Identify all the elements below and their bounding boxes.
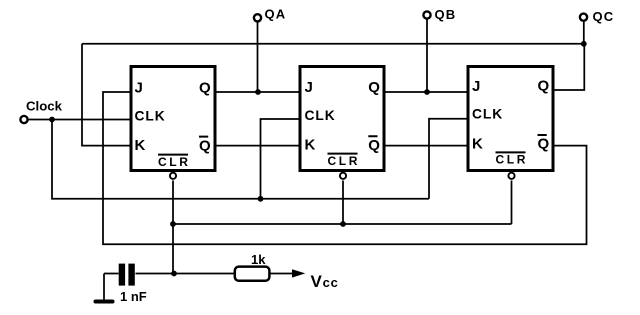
svg-text:QC: QC: [593, 9, 615, 24]
svg-text:QB: QB: [435, 7, 457, 22]
svg-text:Q: Q: [538, 78, 550, 95]
svg-text:Q: Q: [538, 136, 550, 153]
svg-text:CLK: CLK: [305, 108, 336, 123]
svg-text:Clock: Clock: [26, 99, 63, 114]
svg-text:K: K: [472, 136, 483, 153]
svg-text:CLR: CLR: [328, 154, 360, 168]
svg-text:CLK: CLK: [135, 108, 166, 123]
svg-text:CLR: CLR: [496, 153, 528, 167]
svg-text:CLK: CLK: [472, 107, 503, 122]
svg-text:1 nF: 1 nF: [120, 289, 147, 304]
svg-text:CLR: CLR: [158, 155, 190, 169]
svg-text:J: J: [135, 80, 143, 97]
svg-text:Q: Q: [368, 137, 380, 154]
svg-text:QA: QA: [265, 6, 287, 21]
svg-text:J: J: [305, 79, 313, 96]
svg-text:K: K: [305, 137, 316, 154]
svg-text:J: J: [472, 78, 480, 95]
svg-text:Vcc: Vcc: [311, 272, 339, 291]
svg-text:K: K: [135, 137, 146, 154]
svg-text:Q: Q: [199, 79, 211, 96]
svg-text:1k: 1k: [251, 252, 266, 267]
svg-text:Q: Q: [199, 137, 211, 154]
svg-text:Q: Q: [368, 79, 380, 96]
